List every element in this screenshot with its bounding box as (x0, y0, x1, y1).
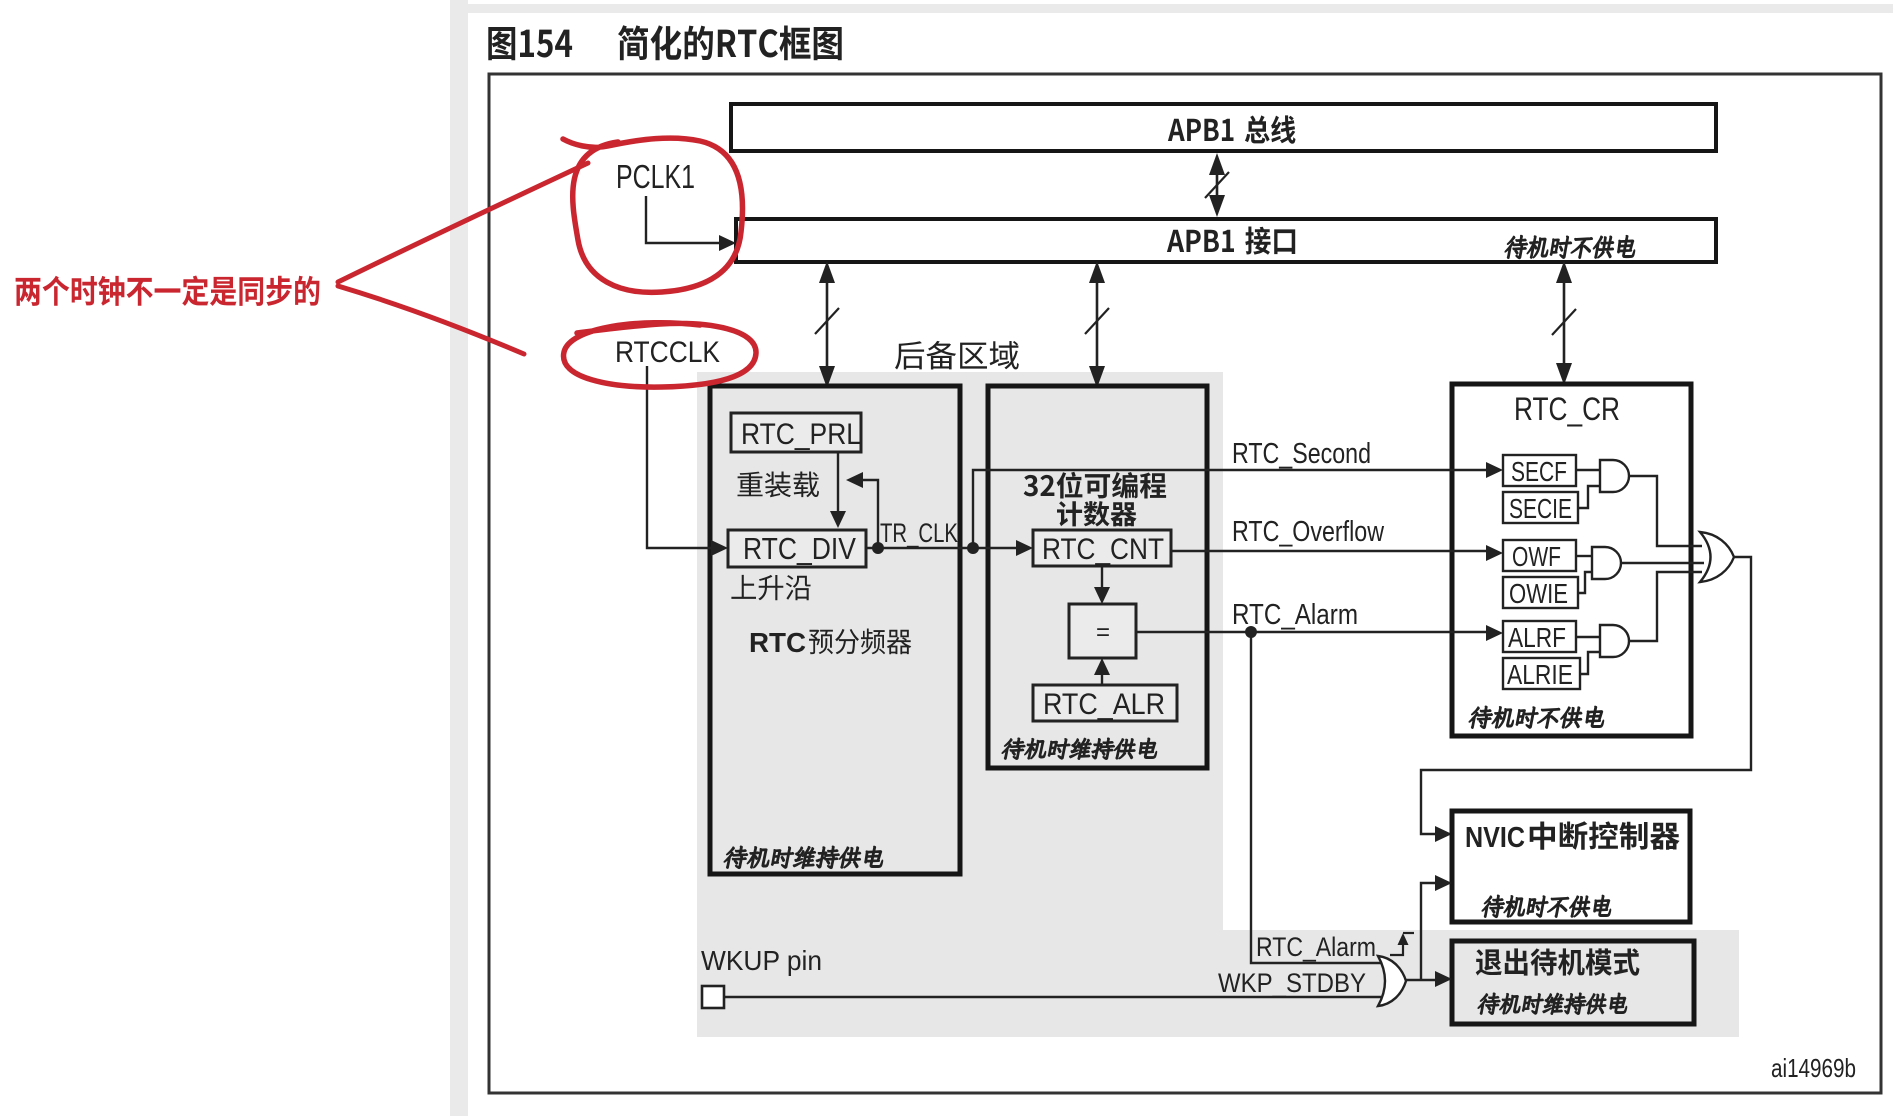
comparator = (1069, 604, 1136, 658)
block RTC prescaler (RTC预分频器) (710, 386, 960, 874)
wire RTC_CNT to comparator (1094, 566, 1110, 604)
svg-text:TR_CLK: TR_CLK (880, 518, 958, 548)
wire U2 output to OR gate U4 (1621, 562, 1704, 564)
annotation red note 两个时钟不一定是同步的 (16, 276, 320, 306)
svg-text:OWF: OWF (1512, 541, 1561, 572)
annotation red pointer lines (338, 163, 588, 354)
wire U1 output to OR gate U4 (1629, 476, 1702, 546)
bus APB1 总线 (731, 104, 1716, 151)
svg-text:ALRIE: ALRIE (1507, 659, 1573, 690)
junction node seconds tick (967, 542, 979, 554)
wire TR_CLK: RTC_DIV to RTC_CNT (866, 540, 1033, 556)
flag SECIE (1503, 492, 1578, 524)
register RTC_DIV (728, 530, 866, 567)
junction node TR_CLK at prescaler output (872, 542, 884, 554)
bus arrow interface to RTC_CR block (1552, 261, 1576, 385)
figure caption: 图154 简化的RTC框图 (488, 25, 841, 60)
block RTC_CR (1452, 384, 1691, 736)
wire ALRIE to AND gate U3 (1580, 652, 1600, 674)
svg-text:RTCCLK: RTCCLK (615, 336, 720, 369)
svg-text:NVIC: NVIC (1465, 822, 1525, 854)
label 待机时维持供电 (counter powered in standby) (1002, 738, 1157, 760)
wire RTC_Overflow (1171, 545, 1503, 561)
rising edge symbol (1390, 933, 1414, 955)
bus arrow interface to prescaler block (815, 261, 839, 388)
flag OWIE (1503, 577, 1578, 609)
backup domain shaded region (697, 372, 1739, 1037)
flag ALRF (1503, 621, 1576, 653)
svg-text:OWIE: OWIE (1509, 578, 1568, 609)
svg-text:RTC_Overflow: RTC_Overflow (1232, 516, 1385, 548)
wire SECIE to AND gate U1 (1578, 486, 1600, 508)
wire RTC_Alarm (1136, 625, 1503, 641)
svg-text:RTC_CNT: RTC_CNT (1042, 533, 1164, 566)
wire U3 output to OR gate U4 (1629, 572, 1702, 641)
block APB1 接口 (APB1 interface) (736, 219, 1716, 262)
wire PCLK1 to APB1 interface (646, 196, 736, 251)
label 后备区域 (backup domain) (895, 341, 1019, 370)
register RTC_CNT (1033, 530, 1171, 566)
label 待机时维持供电 (prescaler powered in standby) (724, 846, 883, 869)
wire WKUP pin to wakeup OR gate (724, 996, 1381, 998)
svg-text:WKUP pin: WKUP pin (701, 945, 822, 976)
flag SECF (1503, 455, 1576, 487)
or gate U4 (interrupt) (1700, 532, 1734, 582)
svg-text:RTC_Alarm: RTC_Alarm (1256, 932, 1376, 962)
register RTC_PRL (731, 413, 861, 452)
wire U5 output branch to NVIC (1421, 875, 1452, 980)
label RTC预分频器 (749, 627, 911, 658)
wire SECF to AND gate U1 (1576, 469, 1600, 471)
pad WKUP pin (702, 986, 724, 1008)
svg-text:=: = (1096, 619, 1110, 646)
svg-text:WKP_STDBY: WKP_STDBY (1218, 968, 1366, 998)
and gate U1 (SECF,SECIE) (1600, 460, 1629, 492)
svg-text:SECIE: SECIE (1509, 493, 1572, 524)
annotation red circle around RTCCLK (564, 323, 756, 387)
svg-text:SECF: SECF (1511, 456, 1567, 487)
wire RTC_Alarm to wakeup OR gate (1251, 632, 1381, 963)
label 重装载 (reload) (738, 472, 820, 498)
wire RTC_ALR to comparator (1094, 658, 1110, 685)
or gate U5 (wakeup) (1378, 956, 1406, 1006)
and gate U3 (ALRF,ALRIE) (1600, 625, 1629, 657)
register RTC_ALR (1033, 685, 1177, 721)
svg-text:ai14969b: ai14969b (1771, 1053, 1856, 1083)
block 32-bit programmable counter (988, 386, 1207, 768)
wire U5 output to exit standby block (1405, 971, 1452, 987)
wire RTC_Second (973, 462, 1503, 548)
bus arrow APB1 bus to APB1 interface (1205, 153, 1229, 217)
flag OWF (1503, 540, 1576, 572)
svg-text:RTC: RTC (749, 627, 806, 658)
wire OWIE to AND gate U2 (1578, 572, 1592, 593)
and gate U2 (OWF,OWIE) (1592, 547, 1621, 579)
wire U4 output to NVIC (1421, 557, 1751, 842)
svg-text:RTC_DIV: RTC_DIV (743, 531, 856, 566)
flag ALRIE (1503, 658, 1580, 690)
block NVIC中断控制器 (1452, 811, 1690, 922)
wire ALRF to AND gate U3 (1576, 636, 1600, 638)
bus arrow interface to counter block (1085, 261, 1109, 388)
label 上升沿 (rising edge) (731, 575, 810, 600)
svg-text:RTC_ALR: RTC_ALR (1043, 688, 1165, 721)
wire OWF to AND gate U2 (1576, 555, 1592, 557)
svg-text:PCLK1: PCLK1 (616, 158, 695, 195)
wire RTCCLK to RTC_DIV (647, 366, 728, 556)
label 32位可编程 计数器 (1024, 472, 1166, 527)
junction node RTC_Alarm (1245, 626, 1257, 638)
block 退出待机模式 (exit standby mode) (1452, 941, 1694, 1024)
annotation red circle around PCLK1 (563, 138, 743, 292)
svg-text:RTC_PRL: RTC_PRL (741, 418, 861, 451)
wire RTC_PRL to RTC_DIV (reload) (830, 451, 846, 528)
svg-text:RTC_Second: RTC_Second (1232, 438, 1371, 470)
svg-text:RTC_CR: RTC_CR (1514, 391, 1620, 427)
page edge shading (450, 0, 468, 1116)
wire TR_CLK feedback to reload arrow (846, 472, 878, 546)
svg-text:ALRF: ALRF (1508, 622, 1566, 653)
label 待机时不供电 (RTC_CR not powered in standby) (1469, 706, 1604, 729)
